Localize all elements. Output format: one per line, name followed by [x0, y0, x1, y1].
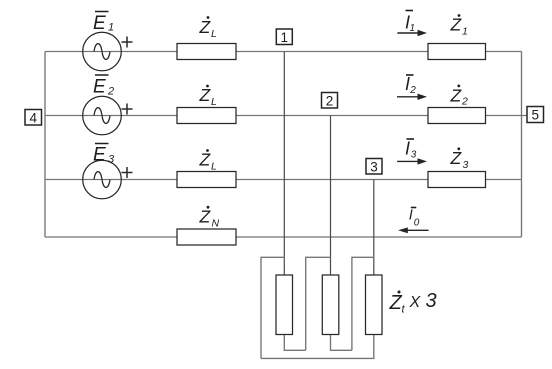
wire phase 2 line — [45, 115, 527, 117]
svg-text:X: X — [409, 294, 422, 311]
label E1 — [93, 12, 114, 35]
svg-text:1: 1 — [108, 22, 114, 34]
node 4 — [25, 110, 42, 126]
current arrow I3 — [397, 139, 427, 165]
resistor ZN neutral — [177, 229, 236, 245]
resistor Z2 — [428, 108, 486, 124]
svg-text:E: E — [93, 77, 106, 98]
wire delta bottom link 3 — [261, 335, 374, 359]
svg-text:Z: Z — [199, 17, 212, 37]
node 2 — [322, 93, 338, 109]
svg-text:Z: Z — [450, 85, 463, 105]
svg-text:Z: Z — [199, 150, 212, 170]
resistor Z1 — [428, 44, 486, 60]
svg-text:4: 4 — [29, 110, 37, 125]
svg-text:2: 2 — [107, 86, 114, 98]
resistor ZL phase 2 — [177, 108, 236, 124]
svg-text:L: L — [211, 28, 217, 40]
svg-text:0: 0 — [414, 218, 420, 229]
wire node 3 vertical drop — [373, 180, 375, 276]
wire delta top link 2 — [306, 257, 331, 350]
svg-text:3: 3 — [463, 159, 469, 171]
svg-text:N: N — [212, 218, 220, 230]
source E1 — [83, 32, 133, 71]
wire delta top link 1 — [261, 257, 284, 358]
label ZL3 — [199, 149, 218, 172]
svg-text:I: I — [405, 139, 410, 159]
label Zt x 3 — [389, 290, 437, 316]
svg-text:Z: Z — [450, 15, 463, 35]
svg-text:E: E — [93, 145, 106, 166]
label Z1 — [450, 14, 468, 37]
svg-text:3: 3 — [411, 150, 417, 161]
svg-text:1: 1 — [410, 23, 416, 34]
svg-text:Z: Z — [199, 85, 212, 105]
svg-text:I: I — [405, 74, 410, 94]
node 5 — [527, 107, 544, 123]
node 1 — [276, 29, 292, 45]
wire delta bottom link 1 — [284, 335, 305, 351]
wire phase 1 line — [45, 51, 522, 53]
label Z2 — [450, 85, 469, 108]
svg-text:L: L — [211, 161, 217, 173]
svg-text:3: 3 — [370, 159, 378, 174]
label ZL2 — [199, 85, 218, 108]
label ZN — [199, 206, 220, 230]
svg-text:Z: Z — [450, 148, 463, 168]
wire node 2 vertical drop — [330, 116, 332, 276]
svg-text:I: I — [409, 208, 413, 224]
wire delta top link 3 — [352, 257, 374, 350]
resistor ZL phase 1 — [177, 44, 236, 60]
resistor Zt c (delta) — [366, 275, 383, 335]
wire phase 3 line — [45, 179, 522, 181]
svg-text:3: 3 — [426, 290, 437, 312]
svg-text:3: 3 — [108, 154, 115, 166]
svg-text:Z: Z — [199, 207, 212, 227]
wire right bus (node 5 bus) — [521, 52, 523, 238]
svg-text:2: 2 — [461, 95, 468, 107]
svg-text:1: 1 — [281, 30, 289, 45]
label Z3 — [450, 147, 469, 171]
node 3 — [366, 159, 382, 175]
wire neutral line — [45, 236, 522, 238]
current arrow I0 — [398, 208, 429, 234]
svg-text:5: 5 — [531, 108, 539, 123]
svg-text:2: 2 — [326, 93, 334, 108]
source E3 — [83, 160, 133, 199]
resistor Z3 — [428, 172, 486, 188]
label ZL1 — [199, 16, 218, 40]
wire node 1 vertical drop — [283, 52, 285, 276]
svg-text:E: E — [93, 13, 106, 34]
current arrow I1 — [397, 11, 427, 37]
resistor Zt b (delta) — [322, 275, 339, 335]
svg-text:Z: Z — [389, 292, 403, 314]
wire delta bottom link 2 — [331, 335, 352, 351]
svg-text:1: 1 — [462, 26, 468, 38]
label E2 — [93, 75, 114, 98]
svg-text:L: L — [211, 96, 217, 108]
label E3 — [93, 144, 115, 166]
wire left bus (node 4 bus) — [44, 52, 46, 238]
source E2 — [83, 96, 133, 135]
svg-text:2: 2 — [409, 85, 416, 96]
resistor Zt a (delta) — [276, 275, 293, 335]
current arrow I2 — [397, 74, 427, 100]
resistor ZL phase 3 — [177, 172, 236, 188]
